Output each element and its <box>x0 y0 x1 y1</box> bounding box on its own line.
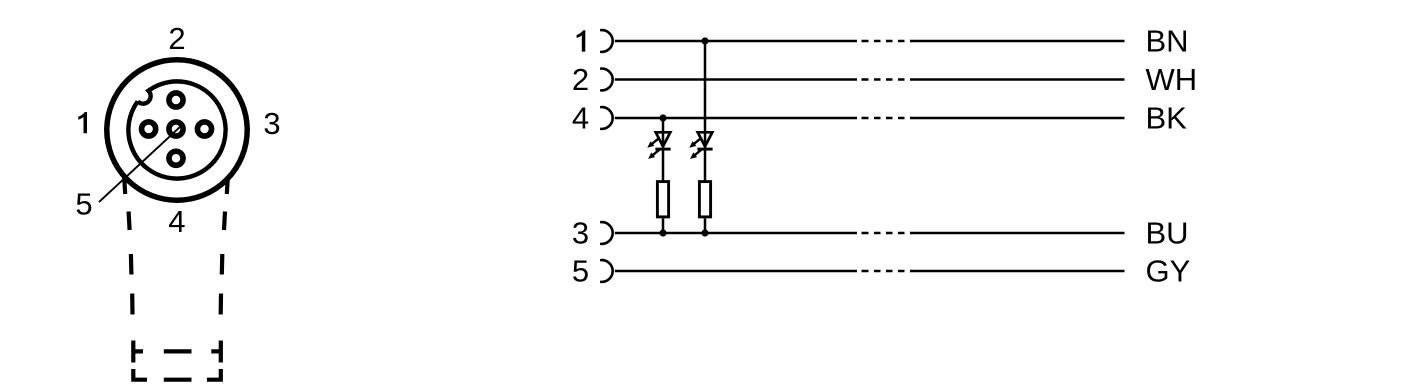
wire line pin 4 to BK <box>615 117 1125 120</box>
resistor R2 <box>699 182 710 217</box>
junction line1/right wire <box>701 37 708 44</box>
junction line3/right wire <box>701 229 708 236</box>
svg-text:2: 2 <box>168 21 185 56</box>
pin 4 contact <box>169 151 183 165</box>
resistor R1 <box>657 182 668 217</box>
svg-text:GY: GY <box>1146 254 1191 289</box>
connector body dashed outline left <box>124 178 147 380</box>
svg-text:BK: BK <box>1146 101 1188 136</box>
connector pin label 1 <box>78 112 87 133</box>
pin 1 contact <box>142 122 156 136</box>
svg-text:3: 3 <box>263 106 280 141</box>
connector flange dashed edges <box>133 351 221 379</box>
wire line pin 5 to GY <box>615 270 1125 273</box>
pin 3 contact <box>197 122 211 136</box>
svg-text:3: 3 <box>572 216 589 251</box>
wire line pin 2 to WH <box>615 78 1125 81</box>
svg-text:4: 4 <box>168 204 185 239</box>
pin 2 contact <box>169 93 183 107</box>
vertical wire from pin 1 line <box>704 41 707 233</box>
contact arc pin 4 <box>600 107 613 129</box>
pin number label 1 <box>577 30 586 51</box>
contact arc pin 5 <box>600 260 613 282</box>
svg-text:2: 2 <box>572 62 589 97</box>
LED D2 (LED) <box>689 132 712 159</box>
vertical wire from pin 4 line <box>662 118 665 233</box>
contact arc pin 2 <box>600 69 613 91</box>
wire line pin 1 to BN <box>615 40 1125 43</box>
junction line4/left wire <box>659 114 666 121</box>
connector inner circle with keyway notch <box>128 81 225 178</box>
contact arc pin 3 <box>600 222 613 244</box>
svg-text:5: 5 <box>75 187 92 222</box>
wire line pin 3 to BU <box>615 232 1125 235</box>
junction line3/left wire <box>659 229 666 236</box>
connector outer circle <box>107 60 247 200</box>
svg-text:BN: BN <box>1146 24 1189 59</box>
LED D1 (LED) <box>647 132 670 159</box>
pin 5 contact <box>169 122 183 136</box>
contact arc pin 1 <box>600 30 613 52</box>
svg-text:BU: BU <box>1146 216 1189 251</box>
svg-text:4: 4 <box>572 101 589 136</box>
connector body dashed outline right <box>207 178 228 380</box>
svg-text:WH: WH <box>1146 62 1198 97</box>
leader line to pin 5 <box>99 126 181 202</box>
svg-text:5: 5 <box>572 254 589 289</box>
